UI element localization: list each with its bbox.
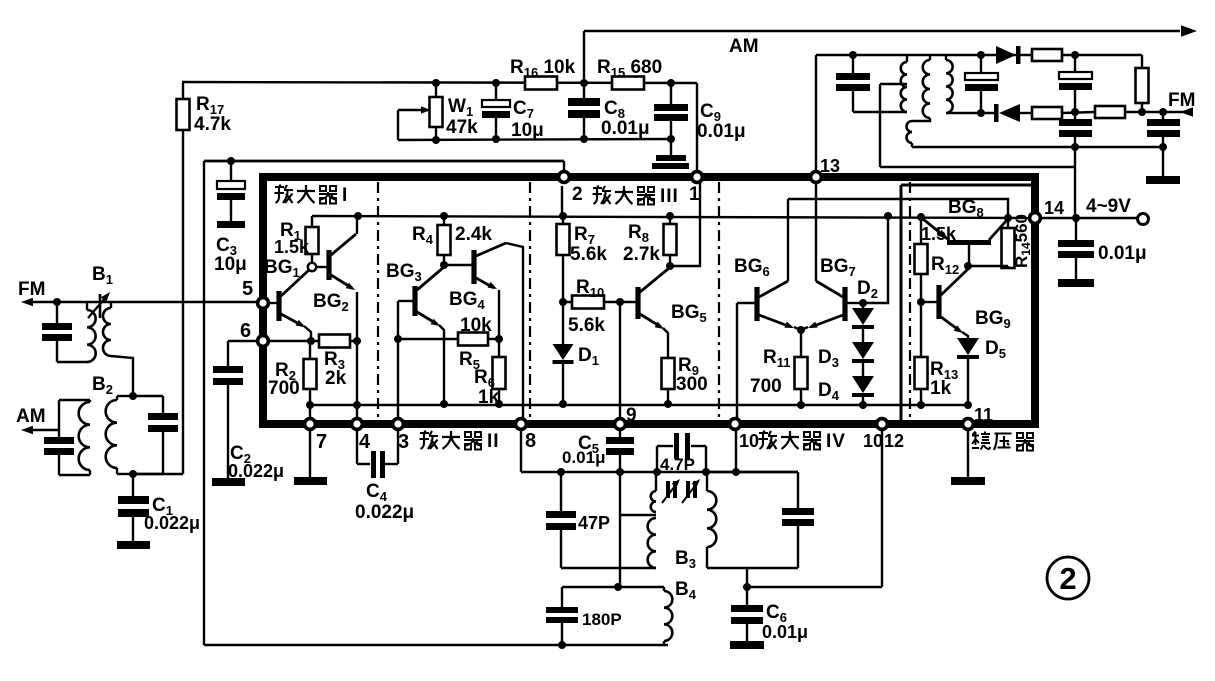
separator amp4/reg bbox=[909, 182, 911, 420]
resistor R6 bbox=[498, 339, 500, 357]
capacitor det sec bbox=[980, 55, 982, 73]
wire pin9 drop bbox=[619, 302, 621, 419]
pin 2 bbox=[559, 172, 570, 183]
tuning arrow B1 bbox=[88, 297, 106, 318]
wire pin7 inside bbox=[309, 405, 311, 419]
wire pin9 to B4 bbox=[619, 472, 621, 587]
junction det fm a bbox=[1138, 108, 1146, 116]
capacitor C8 bbox=[583, 83, 585, 98]
capacitor C7 bbox=[495, 83, 497, 100]
junction B2 top bbox=[129, 392, 137, 400]
wire pin10 outside bbox=[735, 429, 737, 472]
transistor BG6 bbox=[754, 287, 759, 321]
capacitor supply 0.01u bbox=[1075, 218, 1077, 240]
resistor R14 bbox=[1007, 218, 1009, 228]
wire AGC tap bbox=[880, 83, 907, 85]
junction emitters BG6/BG7 bbox=[794, 327, 801, 330]
svg-text:4.7P: 4.7P bbox=[660, 455, 695, 474]
ground pin11 bbox=[951, 477, 985, 485]
wire AM output line bbox=[584, 30, 1180, 32]
svg-text:14: 14 bbox=[1044, 198, 1064, 218]
pin 10 bbox=[730, 419, 741, 430]
wire R4 to BG4 base bbox=[444, 264, 472, 266]
junction R7 top bbox=[559, 212, 567, 220]
junction dec rail b bbox=[492, 135, 500, 143]
trimmer capacitor left bbox=[666, 481, 670, 498]
svg-text:0.022μ: 0.022μ bbox=[144, 513, 200, 533]
svg-text:4~9V: 4~9V bbox=[1086, 196, 1131, 217]
label regulator bbox=[972, 432, 991, 450]
capacitor B1 tank bbox=[56, 302, 58, 323]
resistor R1 bbox=[311, 216, 313, 227]
wire C6 tap bbox=[746, 568, 748, 587]
junction top rail a bbox=[432, 79, 440, 87]
svg-text:700: 700 bbox=[750, 376, 782, 397]
junction det c bbox=[1071, 51, 1079, 59]
resistor R12 bbox=[920, 217, 922, 244]
wire bottom return bbox=[204, 644, 668, 646]
capacitor B2 primary tank bbox=[44, 437, 74, 444]
junction 47P top bbox=[557, 468, 565, 476]
IC package outline bbox=[263, 177, 1035, 424]
arrow FM input bbox=[21, 298, 33, 307]
svg-text:1.5k: 1.5k bbox=[274, 237, 310, 257]
junction top rail b bbox=[492, 79, 500, 87]
wire internal supply rail bbox=[312, 216, 1035, 218]
wire B2 bottom to R17 bbox=[133, 473, 183, 475]
resistor R8 bbox=[669, 216, 671, 224]
svg-text:II: II bbox=[487, 431, 500, 452]
pin 11 bbox=[963, 419, 974, 430]
resistor R2 bbox=[309, 341, 311, 359]
junction R5 right bbox=[495, 335, 503, 343]
transistor BG8 bbox=[947, 240, 991, 245]
diode D2 bbox=[862, 303, 864, 308]
resistor R11 bbox=[800, 330, 802, 357]
diode det lower bbox=[994, 104, 999, 122]
resistor det upper bbox=[1032, 49, 1062, 61]
junction R4 top bbox=[440, 212, 448, 220]
pin 7 bbox=[305, 419, 316, 430]
junction B2 bottom bbox=[129, 470, 137, 478]
capacitor C9 lower bbox=[670, 139, 672, 155]
junction R14 top bbox=[1004, 214, 1012, 222]
svg-text:9: 9 bbox=[626, 405, 637, 426]
pin 9 bbox=[615, 419, 626, 430]
svg-text:IV: IV bbox=[826, 431, 846, 452]
transformer B4 top bbox=[562, 586, 664, 588]
junction dec rail d bbox=[667, 135, 675, 143]
capacitor C4 bbox=[356, 429, 358, 464]
junction top rail d bbox=[667, 79, 675, 87]
coil det T2 primary bbox=[929, 55, 931, 60]
label amplifier II bbox=[420, 431, 439, 450]
wiper W1 bbox=[398, 109, 424, 111]
wire AM input bbox=[28, 429, 59, 431]
resistor R16 bbox=[525, 77, 557, 90]
junction R12 top bbox=[917, 213, 925, 221]
pin 13 bbox=[811, 172, 822, 183]
regulator inner box bbox=[901, 184, 1031, 187]
capacitor 47P bbox=[560, 472, 562, 511]
wire D1 to rail bbox=[562, 364, 564, 404]
capacitor C9 upper bbox=[670, 83, 672, 104]
transistor BG1 bbox=[276, 291, 281, 321]
wire pin1 inside bbox=[670, 182, 700, 266]
pin 6 bbox=[258, 336, 269, 347]
svg-text:6: 6 bbox=[240, 320, 251, 342]
svg-text:300: 300 bbox=[676, 374, 708, 395]
transistor BG2 bbox=[316, 266, 327, 268]
resistor R7 bbox=[562, 216, 564, 224]
junction R2 bottom bbox=[306, 401, 314, 409]
svg-text:3: 3 bbox=[398, 431, 409, 453]
svg-text:10k: 10k bbox=[460, 315, 492, 336]
junction R9 bottom bbox=[664, 400, 672, 408]
capacitor det mid lower bbox=[1074, 112, 1076, 119]
junction R10 right bbox=[616, 298, 624, 306]
capacitor C2 bbox=[213, 366, 243, 373]
junction BG8 base node bbox=[964, 262, 972, 270]
svg-text:47P: 47P bbox=[578, 513, 610, 533]
svg-text:13: 13 bbox=[820, 156, 840, 176]
svg-text:III: III bbox=[660, 186, 679, 207]
diode D3 bbox=[862, 329, 864, 342]
pin 14 bbox=[1030, 213, 1041, 224]
svg-text:11: 11 bbox=[974, 405, 993, 425]
wire internal bottom rail bbox=[310, 404, 968, 406]
arrow AM input bbox=[21, 426, 33, 435]
svg-text:0.022μ: 0.022μ bbox=[228, 461, 284, 481]
junction B3 right top bbox=[702, 468, 710, 476]
wire detector row bbox=[521, 471, 798, 473]
coil det T2 secondary bbox=[945, 55, 947, 60]
svg-text:AM: AM bbox=[729, 36, 759, 57]
transformer B3 secondary bbox=[706, 472, 708, 491]
wire R17 down to AM transformer node bbox=[182, 130, 184, 474]
junction R13 bottom bbox=[917, 401, 925, 409]
junction det a bbox=[849, 51, 857, 59]
resistor R4 bbox=[443, 216, 445, 225]
junction BG9 base bbox=[917, 298, 925, 306]
junction BG2 collector bbox=[354, 212, 362, 220]
junction C3 tap bbox=[227, 157, 235, 165]
wire pin2 net bbox=[204, 160, 564, 163]
svg-text:FM: FM bbox=[1168, 90, 1195, 111]
svg-text:FM: FM bbox=[18, 279, 45, 300]
svg-text:47k: 47k bbox=[446, 117, 478, 138]
capacitor 180P bbox=[561, 587, 563, 607]
resistor det vertical bbox=[1141, 55, 1143, 68]
pin 4 bbox=[352, 419, 363, 430]
resistor R15 bbox=[612, 77, 644, 90]
transformer B1 primary bbox=[86, 302, 88, 310]
transformer B2 primary bbox=[58, 400, 60, 437]
svg-text:7: 7 bbox=[316, 431, 327, 453]
svg-text:4: 4 bbox=[359, 431, 371, 453]
ground C2 bbox=[212, 478, 245, 486]
pin 3 bbox=[393, 419, 404, 430]
capacitor C6 bbox=[746, 587, 748, 605]
junction C6 bbox=[743, 583, 751, 591]
svg-text:2: 2 bbox=[572, 184, 583, 205]
junction R8 bottom bbox=[666, 262, 674, 270]
junction R8 top bbox=[666, 212, 674, 220]
wire det lower mid bbox=[1062, 112, 1095, 113]
diode D4 bbox=[862, 363, 864, 376]
pin 5 bbox=[258, 298, 269, 309]
wire pin12 outside bbox=[881, 429, 883, 587]
svg-text:10μ: 10μ bbox=[511, 120, 544, 141]
label amplifier IV bbox=[759, 431, 778, 450]
capacitor B3 load bbox=[706, 471, 798, 473]
svg-text:5.6k: 5.6k bbox=[568, 315, 605, 336]
transistor BG3 bbox=[398, 300, 413, 302]
wire top supply rail bbox=[182, 82, 697, 83]
svg-text:8: 8 bbox=[525, 430, 536, 452]
junction supply cap bbox=[1072, 214, 1080, 222]
wire detector lower rail bbox=[912, 146, 1163, 148]
arrow FM output bbox=[1180, 107, 1193, 116]
wire det ground bbox=[1162, 147, 1164, 176]
diode det upper bbox=[996, 46, 1016, 64]
junction D5 bottom bbox=[964, 401, 972, 409]
svg-text:0.01μ: 0.01μ bbox=[697, 121, 746, 142]
wire pin4 drop bbox=[356, 341, 358, 419]
ground C1 bbox=[117, 541, 150, 549]
junction C5 bottom bbox=[616, 468, 624, 476]
junction R11 bottom bbox=[797, 401, 805, 409]
junction BG3 emitter bbox=[440, 400, 448, 408]
wire pin2 inside bbox=[561, 186, 563, 216]
wire left vertical drop bbox=[203, 161, 205, 645]
wire pin8 drop bbox=[520, 429, 522, 472]
junction top rail c bbox=[580, 79, 588, 87]
junction R3 left bbox=[307, 337, 315, 345]
ground C6 bbox=[730, 641, 764, 649]
transistor BG4 bbox=[471, 250, 476, 284]
capacitor det mid upper bbox=[1074, 55, 1076, 72]
svg-text:5: 5 bbox=[242, 278, 253, 300]
wire pin3 drop bbox=[397, 301, 399, 419]
svg-text:2.7k: 2.7k bbox=[623, 244, 660, 265]
resistor det lower2 bbox=[1095, 106, 1125, 118]
resistor R13 bbox=[920, 302, 922, 357]
coil det tank1 bbox=[906, 55, 908, 62]
terminal 4-9V bbox=[1138, 214, 1149, 225]
ground supply cap bbox=[1058, 279, 1094, 287]
wire B3 bottom left bbox=[561, 567, 656, 569]
svg-text:0.022μ: 0.022μ bbox=[355, 502, 414, 523]
svg-text:AM: AM bbox=[16, 406, 46, 427]
junction R10 left bbox=[559, 298, 567, 306]
wire pin13 inside bbox=[815, 182, 817, 281]
separator amp2/amp3 bbox=[529, 182, 531, 420]
junction det fm b bbox=[1159, 108, 1167, 116]
wire BG6 base to pin10 bbox=[736, 303, 738, 419]
junction R6 bottom bbox=[495, 400, 503, 408]
svg-text:0.01μ: 0.01μ bbox=[762, 622, 808, 642]
figure number 2 bbox=[1047, 557, 1089, 599]
junction D2 top bbox=[859, 299, 867, 307]
junction dec rail c bbox=[580, 135, 588, 143]
junction det lower mid bbox=[1071, 108, 1079, 116]
transistor BG7 bbox=[842, 287, 847, 321]
capacitor C3 bbox=[230, 161, 232, 181]
wire B3 bottom right bbox=[707, 567, 798, 569]
resistor R5 bbox=[458, 333, 488, 346]
svg-text:4.7k: 4.7k bbox=[194, 114, 231, 135]
resistor R9 bbox=[662, 358, 675, 389]
svg-text:12: 12 bbox=[884, 431, 904, 451]
potentiometer W1 bbox=[435, 83, 437, 97]
wire pin13 riser bbox=[815, 55, 817, 172]
junction FM antenna bbox=[53, 298, 61, 306]
junction D1 bottom bbox=[559, 400, 567, 408]
wire D4 to rail bbox=[862, 397, 864, 405]
pin 1 bbox=[692, 172, 703, 183]
separator amp1/amp2 bbox=[377, 182, 379, 420]
svg-text:10μ: 10μ bbox=[214, 254, 247, 275]
svg-text:2k: 2k bbox=[325, 368, 347, 389]
svg-text:1k: 1k bbox=[478, 387, 500, 408]
transformer B1 secondary bbox=[110, 302, 112, 308]
svg-text:180P: 180P bbox=[582, 610, 622, 629]
svg-text:0.01μ: 0.01μ bbox=[1098, 243, 1147, 264]
resistor R10 bbox=[572, 296, 604, 309]
trimmer capacitor right bbox=[686, 481, 690, 498]
wire FM output bbox=[1125, 111, 1188, 113]
capacitor det out bbox=[1162, 112, 1164, 119]
svg-text:0.01μ: 0.01μ bbox=[601, 118, 650, 139]
svg-text:2: 2 bbox=[1059, 561, 1076, 596]
resistor det lower1 bbox=[1032, 107, 1062, 119]
label amplifier I bbox=[275, 185, 294, 204]
capacitor C1 bbox=[132, 474, 134, 496]
ground pin7 bbox=[294, 477, 327, 485]
label amplifier III bbox=[593, 186, 612, 205]
transistor BG5 bbox=[635, 287, 640, 319]
transformer B4 coil bbox=[663, 587, 665, 591]
wire decoupling rail bbox=[398, 139, 671, 140]
svg-text:0.01μ: 0.01μ bbox=[562, 448, 606, 467]
ground detector bbox=[1146, 176, 1180, 184]
wire pin11 ground bbox=[967, 429, 969, 477]
junction pin10 drop bbox=[732, 468, 740, 476]
junction D4 bottom bbox=[859, 401, 867, 409]
wire R10 row bbox=[563, 301, 636, 303]
diode D1 bbox=[562, 302, 564, 344]
transistor BG9 bbox=[936, 285, 941, 319]
wire pin7 ground bbox=[309, 429, 311, 477]
transformer B3 primary bbox=[655, 472, 657, 491]
junction det b bbox=[977, 51, 985, 59]
junction R5 left bbox=[394, 335, 402, 343]
wire collector bus bbox=[788, 199, 1008, 218]
junction det rail b bbox=[1159, 143, 1167, 151]
capacitor B2 tank bbox=[133, 395, 163, 397]
coil det T2 tertiary bbox=[912, 118, 930, 121]
wire pin6 outside bbox=[228, 340, 258, 342]
svg-text:I: I bbox=[342, 185, 348, 206]
separator amp3/amp4 bbox=[718, 182, 720, 420]
svg-text:1k: 1k bbox=[930, 378, 952, 399]
svg-text:2.4k: 2.4k bbox=[455, 224, 492, 245]
pin 8 bbox=[516, 419, 527, 430]
capacitor C5 bbox=[619, 429, 621, 437]
wire R5 row bbox=[398, 338, 499, 340]
arrow AM output bbox=[1181, 25, 1197, 37]
wire detector top rail bbox=[816, 54, 1142, 56]
wire D2 pull-up bbox=[863, 216, 888, 303]
svg-text:R16 10k: R16 10k bbox=[510, 57, 576, 80]
resistor R3 bbox=[319, 335, 350, 348]
svg-text:5.6k: 5.6k bbox=[570, 244, 607, 265]
junction det rail a bbox=[1071, 143, 1079, 151]
junction dec rail a bbox=[432, 136, 440, 144]
pin 12 bbox=[877, 419, 888, 430]
wire pin6 row bbox=[263, 340, 357, 342]
wire pin14 supply bbox=[1039, 217, 1138, 219]
junction B3 left top bbox=[653, 468, 661, 476]
svg-text:10: 10 bbox=[739, 431, 759, 451]
svg-text:R15 680: R15 680 bbox=[597, 57, 662, 80]
resistor R17 bbox=[182, 83, 184, 99]
junction R3 right bbox=[353, 337, 361, 345]
diode D5 bbox=[962, 332, 968, 338]
capacitor det tank1 bbox=[852, 55, 854, 73]
wire det secondary out bbox=[946, 112, 996, 114]
junction R4 bottom bbox=[440, 261, 448, 269]
svg-text:700: 700 bbox=[268, 378, 300, 399]
wire FM input bbox=[28, 301, 258, 303]
capacitor 4.7P bbox=[657, 445, 673, 447]
svg-text:10: 10 bbox=[863, 431, 883, 451]
transformer B2 secondary bbox=[117, 395, 133, 397]
svg-text:1: 1 bbox=[689, 184, 700, 205]
node R1/BG1/BG2 bbox=[308, 263, 316, 271]
